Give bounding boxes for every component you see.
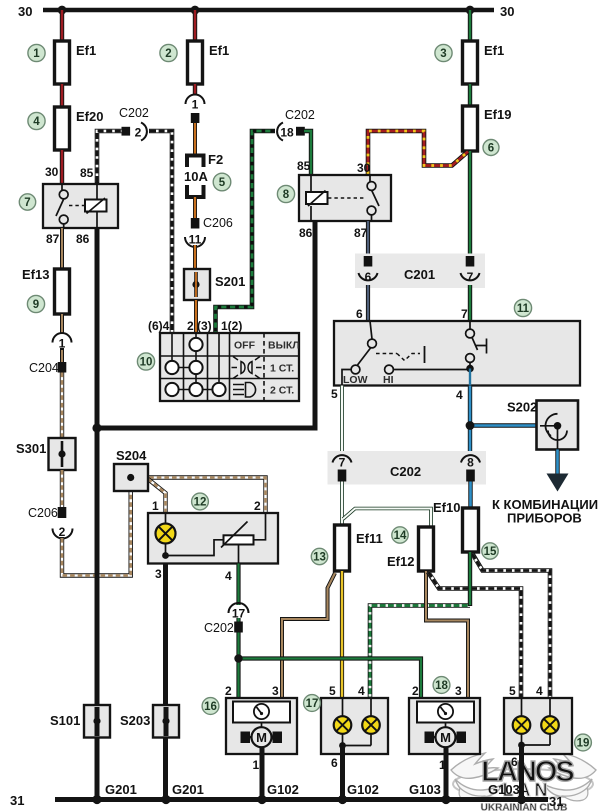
callout 8 [277, 185, 294, 202]
svg-text:4: 4 [358, 684, 365, 698]
svg-text:17: 17 [306, 698, 319, 710]
svg-text:10A: 10A [184, 169, 208, 184]
connector arc 1 (C204) [53, 333, 72, 343]
dimmer contact HI [385, 365, 394, 374]
S202 internal symbol [540, 425, 557, 427]
callout 2 [160, 44, 177, 61]
svg-text:F2: F2 [208, 152, 223, 167]
fuse Ef11 [335, 525, 350, 571]
svg-text:ПРИБОРОВ: ПРИБОРОВ [507, 511, 582, 526]
wire: orange F2 to C206 pin [193, 197, 197, 218]
wire: blue branch to splice S202 [470, 423, 537, 427]
svg-text:6: 6 [511, 755, 518, 769]
module lamp symbol [165, 513, 167, 524]
connector arc 11 [185, 237, 205, 247]
connector pin square C202-7 [338, 470, 347, 482]
headlamp unit (17) [321, 698, 388, 754]
wire: thick black relay K8 pin86 down and across to junction [99, 221, 315, 428]
connector arc 8 [461, 455, 480, 462]
wire: tan Ef12 to leveling motor 18 pin3 [426, 571, 468, 698]
svg-text:15: 15 [484, 546, 497, 558]
connector pin square C202-2 [122, 127, 131, 136]
svg-text:5: 5 [329, 684, 336, 698]
svg-text:1 СТ.: 1 СТ. [270, 363, 294, 375]
headlamp unit (19) [504, 698, 572, 754]
svg-text:S202: S202 [507, 400, 537, 415]
dimmer switch assembly (11) [334, 321, 580, 386]
svg-text:13: 13 [313, 552, 326, 564]
callout 14 [392, 527, 408, 543]
connector band C202 (lower) [328, 451, 487, 485]
DRL control module (12) [148, 513, 278, 564]
node: bus31 headlamp17 [338, 795, 347, 804]
svg-text:6: 6 [488, 143, 494, 155]
svg-text:1(2): 1(2) [221, 319, 242, 333]
svg-text:5: 5 [219, 177, 226, 189]
svg-text:C204: C204 [29, 361, 59, 375]
callout 5 [213, 173, 231, 191]
svg-text:3: 3 [440, 48, 446, 60]
watermark LANOS club logo [451, 753, 596, 812]
connector band C201 [355, 254, 485, 289]
svg-text:3: 3 [455, 684, 462, 698]
motor M [261, 723, 263, 728]
svg-text:S301: S301 [16, 441, 46, 456]
wire: white/green branch to fuse Ef12 [343, 509, 431, 528]
svg-text:C202: C202 [204, 621, 234, 635]
svg-text:5: 5 [509, 684, 516, 698]
svg-text:G102: G102 [267, 782, 299, 797]
connector pin square C202-18 [296, 127, 305, 136]
svg-text:C206: C206 [203, 216, 233, 230]
svg-text:2 СТ.: 2 СТ. [270, 385, 294, 397]
callout 18 [433, 677, 450, 694]
switch contact row3 col1 [165, 383, 178, 396]
svg-text:S203: S203 [120, 713, 150, 728]
fuse Ef20 [55, 107, 70, 150]
svg-text:30: 30 [18, 4, 32, 19]
wire: green junction to leveling motor 16 pin2 [236, 659, 240, 699]
connector pin square C202-17 [234, 622, 243, 633]
wire: green arc17 to C202 pin [236, 618, 240, 622]
wire: green Ef1-3 to Ef19 [468, 84, 472, 106]
switch contact row3 col2 [189, 383, 202, 396]
connector pin square C206 [58, 507, 67, 518]
wire: red bus30 to fuse Ef1-2 [193, 10, 197, 41]
callout 3 [435, 44, 452, 61]
connector pin square C201-6 [364, 256, 373, 267]
svg-text:12: 12 [194, 497, 207, 509]
svg-text:HI: HI [383, 374, 394, 386]
wire: green Ef19 down to connector C201-7 [468, 151, 472, 256]
wire: blue C202-8 to fuse Ef10 [468, 482, 472, 509]
node: bus31 motor16 [257, 795, 266, 804]
node: headlamp 17 common [339, 742, 346, 749]
svg-text:Ef10: Ef10 [433, 500, 460, 515]
connector pin square (to F2) [191, 113, 200, 123]
wire: green DRL module pin4 to connector arc 17 [236, 564, 240, 606]
svg-text:85: 85 [297, 159, 311, 173]
svg-text:31: 31 [10, 793, 24, 808]
svg-text:C202: C202 [285, 108, 315, 122]
wire: tan/white striped C204 to splice S301 [60, 373, 64, 439]
wire: green bus30 to fuse Ef1-3 [468, 10, 472, 41]
svg-text:G103: G103 [409, 782, 441, 797]
svg-text:4: 4 [33, 116, 40, 128]
svg-text:Ef1: Ef1 [209, 43, 229, 58]
svg-text:M: M [256, 730, 267, 745]
callout 15 [482, 543, 498, 559]
bulb position [334, 716, 352, 734]
module resistor (adjustable) [254, 513, 266, 540]
svg-text:G201: G201 [105, 782, 137, 797]
bulb beam [541, 716, 559, 734]
wire: red Ef1-1 to Ef20 [60, 84, 64, 107]
bus 30 (top supply rail) [43, 8, 494, 13]
switch contact row2 col2 [189, 361, 202, 374]
splice S201 [184, 269, 210, 300]
svg-text:7: 7 [461, 307, 468, 321]
node: module lamp junction [162, 552, 169, 559]
svg-text:Ef11: Ef11 [356, 531, 383, 546]
callout 1 [28, 44, 45, 61]
fuse Ef1 (3) [463, 41, 478, 84]
svg-text:Ef20: Ef20 [76, 109, 103, 124]
svg-text:10: 10 [140, 357, 153, 369]
fuse Ef12 [419, 527, 434, 571]
svg-text:C202: C202 [390, 464, 421, 479]
connector pin square C202-8 [466, 470, 475, 482]
svg-text:16: 16 [204, 701, 217, 713]
wire: white/green dimmer pin5 to C202-7 [340, 386, 344, 455]
svg-text:2 (3): 2 (3) [187, 319, 212, 333]
wire: tan Ef11 branch to leveling motor 16 pin3 [282, 573, 335, 698]
gauge symbol [438, 704, 453, 719]
wire: tan Ef13 to connector arc 1 [60, 314, 64, 334]
dimmer mechanical link (dashed) [376, 354, 420, 361]
light switch assembly (10) [160, 333, 299, 401]
svg-text:C202: C202 [119, 106, 149, 120]
svg-text:S204: S204 [116, 448, 147, 463]
node: blue wire junction [466, 421, 475, 430]
wire: tan/white striped S204 to DRL module pin1 [148, 479, 166, 513]
wire: green junction across to leveling motor 18 pin2 [239, 659, 422, 699]
svg-text:OFF: OFF [234, 340, 256, 352]
wire: blue dimmer pin4 down [468, 386, 472, 454]
wire: green C201-7 to dimmer switch pin7 [468, 285, 472, 321]
wire: thick black headlamp 17 pin6 to ground bus [340, 746, 345, 799]
wire: thick black motor 16 pin1 to ground bus [260, 747, 265, 799]
switch internal wiring column 2 [172, 333, 219, 390]
svg-text:C206: C206 [28, 506, 58, 520]
fuse Ef10 [463, 508, 479, 552]
wire: orange S201 to light switch pin 2(3) [194, 300, 198, 333]
node: headlamp 19 common [518, 742, 525, 749]
connector arc 1 (below Ef1-2) [186, 95, 205, 105]
svg-text:3: 3 [155, 567, 162, 581]
svg-text:2: 2 [254, 499, 261, 513]
svg-text:M: M [440, 730, 451, 745]
svg-text:2: 2 [225, 684, 232, 698]
callout 7 [19, 194, 35, 210]
svg-text:87: 87 [46, 232, 60, 246]
connector arc 7 [333, 455, 352, 462]
wire: green/white striped Ef10 branch to headlamp 17 pin4 [370, 606, 470, 699]
callout 10 [137, 353, 154, 370]
callout 19 [575, 734, 592, 751]
callout 4 [28, 112, 45, 129]
svg-text:Ef12: Ef12 [387, 554, 414, 569]
dimmer internal: pin6 lead and movable arm [358, 321, 373, 365]
svg-text:ВЫКЛ: ВЫКЛ [268, 340, 300, 352]
svg-text:1: 1 [152, 499, 159, 513]
svg-text:2: 2 [412, 684, 419, 698]
wire: red Ef20 to relay K7 pin30 [60, 150, 64, 184]
dimmer internal: pin5 lead [342, 370, 351, 386]
motor M [445, 723, 447, 728]
connector pin square C206 [191, 218, 200, 229]
wire: yellow Ef11 to headlamp 17 pin5 [340, 571, 344, 698]
wire: green Ef10 down [468, 552, 472, 606]
splice S101 [84, 705, 110, 738]
svg-text:30: 30 [45, 165, 59, 179]
fuse Ef19 [463, 106, 478, 151]
wire: thick black DRL module pin3 to ground bus [163, 564, 168, 800]
bulb beam [362, 716, 380, 734]
dimmer internal: pin7 lead and high-beam switch [470, 321, 478, 369]
connector arc 18 [277, 123, 283, 141]
wire: green/black striped arc18 to light switch pin 1(2) [216, 131, 276, 333]
svg-text:S101: S101 [50, 713, 80, 728]
wire: green C202-18 to relay K8 pin85 [304, 131, 311, 175]
wire: orange connector to fuse F2 [193, 123, 197, 154]
callout 13 [311, 548, 327, 564]
svg-text:8: 8 [283, 189, 290, 201]
svg-text:G103: G103 [488, 782, 520, 797]
svg-text:18: 18 [435, 680, 448, 692]
svg-text:2: 2 [135, 126, 142, 140]
svg-text:4: 4 [536, 684, 543, 698]
switch contact row3 col3 [212, 383, 225, 396]
svg-text:6: 6 [331, 756, 338, 770]
svg-text:86: 86 [299, 226, 313, 240]
svg-text:G102: G102 [347, 782, 379, 797]
fuse Ef1 (2) [188, 41, 203, 84]
svg-text:87: 87 [354, 226, 368, 240]
relay K7 coil [85, 200, 107, 212]
callout 12 [192, 493, 209, 510]
svg-text:(6)4: (6)4 [148, 319, 170, 333]
svg-text:11: 11 [517, 303, 530, 315]
svg-text:S201: S201 [215, 274, 245, 289]
fuse F2 10A [187, 156, 204, 168]
wire: orange arc11 to S201 [193, 245, 197, 270]
switch contact row1 col2 [189, 338, 202, 351]
node: bus31 S101 [92, 795, 101, 804]
icon parking lights [232, 357, 262, 379]
relay K8 (8) [299, 175, 391, 221]
switch internal wiring column 3 [218, 333, 220, 390]
svg-text:86: 86 [76, 232, 90, 246]
node: bus31 S203 [161, 795, 170, 804]
callout 17 [304, 695, 321, 712]
wire: white/green C202-7 to fuse Ef11 [340, 482, 344, 526]
svg-text:14: 14 [394, 530, 407, 542]
svg-text:6: 6 [356, 307, 363, 321]
relay K7 (7) [43, 184, 118, 228]
dimmer contact LOW [351, 365, 360, 374]
connector pin square C201-7 [466, 256, 475, 267]
wire: blue S202 output stub [555, 450, 559, 477]
node: bus31 motor18 [441, 795, 450, 804]
connector pin square C204 [58, 362, 67, 373]
svg-text:Ef1: Ef1 [76, 43, 96, 58]
svg-text:31: 31 [549, 794, 563, 809]
svg-text:8: 8 [467, 456, 474, 470]
svg-text:3: 3 [272, 684, 279, 698]
wire: red stub Ef1-2 to connector arc 1 [193, 84, 197, 95]
wire: slate C201-6 to dimmer switch pin6 [366, 285, 370, 321]
splice S301 [49, 438, 76, 470]
svg-text:1: 1 [192, 98, 199, 112]
callout 6 [483, 140, 499, 156]
splice S204 [114, 464, 148, 491]
node: bus30 / Ef1-1 junction [58, 6, 67, 15]
bus 31 (ground rail) [55, 797, 548, 802]
svg-text:9: 9 [33, 299, 39, 311]
wire: slate relay K8 pin87 to C201 pin6 [366, 221, 370, 256]
wire: red bus30 to fuse Ef1-1 [60, 10, 64, 41]
fuse Ef1 (1) [55, 41, 70, 84]
switch contact row2 col1 [165, 361, 178, 374]
splice S203 [153, 705, 179, 738]
svg-text:C201: C201 [404, 267, 435, 282]
callout 9 [27, 295, 44, 312]
callout 11 [514, 299, 531, 316]
svg-text:4: 4 [225, 569, 232, 583]
arrow to instrument cluster [547, 474, 569, 492]
wire: tan/white striped C206-2 to splice S204 [62, 481, 131, 576]
svg-text:2: 2 [165, 48, 171, 60]
wire: black/white striped Ef10 to headlamp 19 pin4 [472, 553, 550, 698]
fuse Ef13 [55, 269, 70, 314]
connector arc 17 [229, 603, 249, 613]
node: bus30 / Ef1-2 junction [191, 6, 200, 15]
svg-text:30: 30 [500, 4, 514, 19]
svg-text:LOW: LOW [343, 374, 368, 386]
switch internal wiring column 1 [172, 333, 196, 368]
wire: tan/white striped S301 to C206 pin [60, 470, 64, 507]
node: dimmer output junction [466, 365, 474, 373]
svg-text:7: 7 [467, 270, 474, 284]
headlamp leveling motor (18) [409, 698, 480, 754]
wire: black/white striped C202-2 to light switch pin (6)4 [149, 131, 172, 333]
svg-text:19: 19 [577, 738, 590, 750]
wire: tan/white striped S204 to DRL module pin2 [134, 478, 266, 514]
svg-text:2: 2 [59, 525, 66, 539]
wire: thick black headlamp 19 pin6 to ground bus [519, 746, 524, 800]
svg-text:30: 30 [357, 161, 371, 175]
dimmer internal: HI contact to output node [394, 369, 471, 371]
wire: thick black motor 18 pin1 to ground bus [444, 747, 449, 799]
svg-text:5: 5 [331, 387, 338, 401]
svg-text:Ef19: Ef19 [484, 107, 511, 122]
svg-text:18: 18 [280, 126, 294, 140]
wire: black/white striped relay K7 pin85 to C202 pin2 [97, 131, 123, 184]
svg-text:1: 1 [253, 758, 260, 772]
svg-text:6: 6 [365, 270, 372, 284]
wire: tan arc1 to C204 pin [60, 348, 64, 363]
wire: black/white striped Ef12 to headlamp 19 pin5 [428, 572, 521, 698]
wire: green C202-17 down to junction [236, 633, 240, 659]
svg-text:11: 11 [189, 233, 202, 247]
node: ground junction at relay K7 leg [92, 423, 101, 432]
svg-text:Ef13: Ef13 [22, 267, 49, 282]
svg-text:85: 85 [80, 166, 94, 180]
svg-text:7: 7 [24, 197, 30, 209]
node: bus30 / Ef1-3 junction [466, 6, 475, 15]
wire: thick black relay K7 pin86 down to ground bus [95, 228, 100, 799]
splice S202 (to instrument cluster) [537, 401, 579, 450]
bulb position [513, 716, 531, 734]
node: green wire junction [234, 654, 242, 662]
svg-text:1: 1 [33, 48, 40, 60]
wire: red/yellow striped relay K8 pin30 to Ef19 bottom [368, 131, 468, 175]
node: bus31 headlamp19 [517, 795, 526, 804]
callout 16 [202, 698, 219, 715]
svg-text:G201: G201 [172, 782, 204, 797]
gauge symbol [254, 704, 269, 719]
svg-text:7: 7 [339, 456, 346, 470]
headlamp leveling motor (16) [226, 698, 297, 754]
dimmer internal: node to pin4 [469, 369, 471, 386]
svg-text:Ef1: Ef1 [484, 43, 504, 58]
wire: tan relay K7 pin87 to fuse Ef13 [60, 228, 64, 269]
svg-text:4: 4 [456, 388, 463, 402]
relay K8 coil [306, 192, 328, 204]
icon headlight low/high beam [233, 383, 256, 398]
